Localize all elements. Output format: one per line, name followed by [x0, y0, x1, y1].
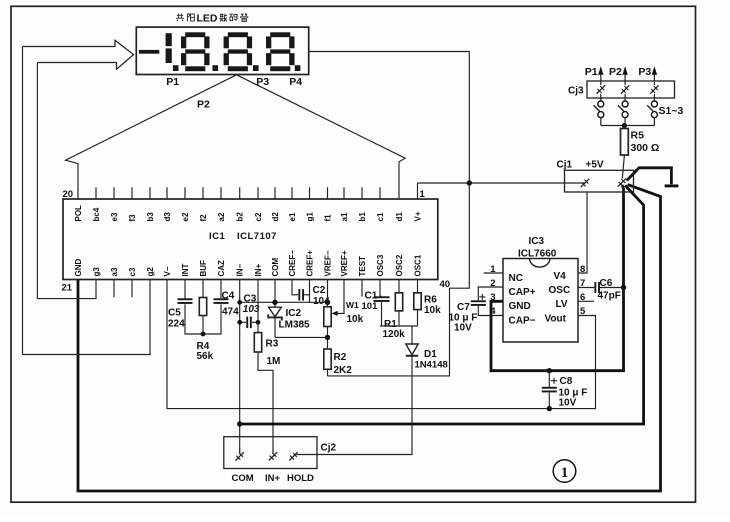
capacitor C7 10uF between CAP+ and CAP- [449, 287, 504, 333]
connector Cj1 +5V box [557, 159, 634, 192]
wire: g3 pin to arrow inner line [37, 63, 96, 299]
wire: V- pin rail to IC3 Vout (pin5) [167, 280, 596, 409]
svg-text:IN+: IN+ [265, 473, 281, 484]
svg-text:OSC: OSC [549, 285, 571, 296]
label: 共阳LED数码管 (common-anode LED display title) [176, 12, 248, 24]
svg-text:CREF+: CREF+ [306, 250, 315, 277]
potentiometer W1 10k [324, 280, 364, 327]
signal-bus arrow into display [23, 40, 134, 69]
wire: COM pin to IC2 [274, 280, 276, 308]
svg-text:120k: 120k [383, 329, 406, 340]
svg-text:LV: LV [556, 299, 568, 310]
wire: +5V net from display to rails [309, 52, 585, 376]
svg-text:ICL7107: ICL7107 [237, 231, 277, 242]
svg-text:e2: e2 [181, 212, 190, 221]
IC1 top pin labels [74, 205, 423, 222]
svg-text:56k: 56k [197, 351, 214, 362]
svg-text:a2: a2 [217, 212, 226, 221]
svg-text:C4: C4 [222, 290, 235, 301]
svg-text:ICL7660: ICL7660 [518, 248, 557, 259]
svg-text:GND: GND [74, 259, 83, 277]
IC U1: IC1 ICL7107 body [63, 199, 438, 280]
svg-text:40: 40 [440, 279, 451, 290]
svg-text:10k: 10k [347, 314, 364, 325]
svg-text:S1~3: S1~3 [659, 105, 684, 117]
capacitor C8 10uF output [542, 371, 588, 409]
resistor R3 [254, 333, 280, 453]
label P2 [197, 99, 210, 111]
svg-text:g1: g1 [306, 212, 315, 222]
IC3 pin numbers [490, 264, 586, 317]
wire+arrow to P2 [622, 66, 627, 85]
resistor R6 [414, 280, 441, 327]
voltage reference IC2 LM385 (zener symbol) [268, 307, 310, 337]
svg-text:1N4148: 1N4148 [415, 359, 448, 370]
svg-text:CAP+: CAP+ [509, 287, 536, 298]
svg-text:COM: COM [232, 473, 254, 484]
IC3 pin names [509, 271, 571, 327]
svg-text:P3: P3 [256, 76, 269, 88]
svg-text:LM385: LM385 [279, 320, 311, 331]
svg-text:C5: C5 [168, 307, 181, 318]
svg-text:CAP−: CAP− [509, 315, 536, 326]
svg-text:d1: d1 [395, 212, 404, 222]
node: C3 left [237, 320, 242, 325]
svg-text:INT: INT [181, 264, 190, 277]
svg-text:d2: d2 [271, 212, 280, 222]
svg-text:a1: a1 [340, 212, 349, 221]
svg-text:b3: b3 [146, 212, 155, 222]
svg-text:e1: e1 [288, 212, 297, 221]
wire: oscillator bottom common [380, 325, 418, 327]
svg-text:R6: R6 [424, 295, 437, 306]
svg-text:D1: D1 [424, 349, 437, 360]
svg-text:R5: R5 [631, 129, 645, 141]
pin number 40 [440, 279, 451, 290]
svg-text:C7: C7 [457, 302, 470, 313]
svg-text:21: 21 [62, 283, 73, 294]
wire: CAZ pin to C4 [220, 280, 222, 299]
wire: g2 pin to arrow outer line [23, 47, 151, 355]
svg-text:10k: 10k [424, 305, 441, 316]
svg-text:P1: P1 [166, 76, 179, 88]
svg-text:101: 101 [362, 301, 379, 312]
svg-text:b1: b1 [358, 212, 367, 222]
diode D1 1N4148 [296, 326, 447, 455]
svg-text:P3: P3 [638, 66, 651, 78]
svg-text:b2: b2 [236, 212, 245, 222]
node: IN- / rail junction [237, 300, 242, 305]
node: switch bus to R5 [622, 123, 627, 128]
svg-text:R3: R3 [266, 339, 279, 350]
pin number 21 [62, 283, 73, 294]
connector pin +5V in (Cj1) [581, 179, 589, 187]
wire: display to IC1 pin d1 fan (right roof) [237, 75, 406, 199]
svg-text:IN−: IN− [236, 264, 245, 277]
svg-text:474: 474 [222, 307, 239, 318]
svg-text:e3: e3 [110, 212, 119, 221]
connector Cj3 box [568, 81, 675, 98]
svg-text:TEST: TEST [358, 256, 367, 277]
connector pin P1 (Cj3) [597, 85, 605, 93]
svg-text:IC1: IC1 [209, 231, 226, 242]
node: C8 top on ground rail [547, 368, 552, 373]
svg-text:V4: V4 [554, 271, 567, 282]
svg-text:IC3: IC3 [529, 236, 545, 247]
connector pin P2 (Cj3) [621, 85, 629, 93]
capacitor C3 [240, 293, 260, 328]
wire: thick COM rail from IN- line to Cj1 [240, 186, 644, 425]
svg-text:1: 1 [561, 465, 569, 481]
resistor R4 [197, 280, 214, 363]
svg-text:300 Ω: 300 Ω [631, 142, 660, 154]
wire: INT pin to C5 [184, 280, 186, 299]
wire+arrow to P3 [652, 66, 657, 85]
wire: thick ground net Cj1 to IC3 pin3 GND [491, 185, 624, 371]
svg-text:1M: 1M [267, 356, 281, 367]
svg-text:R2: R2 [334, 352, 347, 363]
capacitor C1 [362, 280, 390, 327]
svg-text:IN+: IN+ [254, 264, 263, 277]
svg-text:VREF+: VREF+ [340, 250, 349, 276]
node: C3 right [256, 320, 261, 325]
svg-text:10V: 10V [454, 322, 472, 333]
svg-text:OSC2: OSC2 [395, 254, 404, 276]
IC1 top pin stubs [96, 183, 418, 199]
svg-text:P2: P2 [197, 99, 210, 111]
svg-text:Cj2: Cj2 [321, 442, 337, 453]
node: R4 bottom junction [201, 332, 206, 337]
chassis ground symbol [627, 168, 679, 186]
svg-text:V+: V+ [414, 211, 423, 221]
node: W1 top junction [325, 300, 330, 305]
svg-text:OSC3: OSC3 [376, 254, 385, 276]
svg-text:C2: C2 [313, 285, 326, 296]
wire: a3 pin stub [113, 280, 115, 298]
connector pin P3 (Cj3) [650, 85, 658, 93]
wire: IN- pin line down to Cj2 COM [239, 280, 241, 454]
label IN+ [265, 473, 281, 484]
svg-text:BUF: BUF [199, 260, 208, 277]
wire: reference rail IN- to W1 top [240, 301, 328, 303]
svg-text:10V: 10V [559, 397, 577, 408]
svg-text:f2: f2 [199, 214, 208, 222]
svg-text:2K2: 2K2 [334, 365, 353, 376]
LED display module (-1.8.8.8.) [136, 27, 308, 74]
svg-text:P1: P1 [585, 66, 598, 78]
svg-text:V−: V− [163, 266, 172, 276]
label P3 [638, 66, 651, 78]
svg-text:IC2: IC2 [286, 308, 302, 319]
svg-text:NC: NC [509, 273, 523, 284]
wire: IN+ pin through C3 node to R3 [257, 280, 259, 333]
wire: display to IC1 pin20 fan (left roof) [66, 75, 237, 199]
svg-text:CREF−: CREF− [288, 250, 297, 277]
svg-text:g2: g2 [146, 267, 155, 277]
capacitor C6 47pF on OSC pin [578, 278, 624, 302]
connector pin GND (Cj1) [618, 178, 626, 186]
svg-text:Cj3: Cj3 [568, 86, 584, 97]
wire: GND pin thick ground loop (bottom and right side) [78, 185, 661, 491]
capacitor C2 between CREF- and CREF+ [292, 280, 330, 308]
wire: VREF- pin to W1 [327, 280, 329, 307]
svg-text:5: 5 [580, 306, 586, 317]
label HOLD [287, 473, 314, 484]
svg-text:c2: c2 [254, 212, 263, 221]
svg-text:20: 20 [63, 189, 74, 200]
label P1 [166, 76, 179, 88]
node: W1/R2/IC2 junction [325, 335, 330, 340]
pin number 20 [63, 189, 74, 200]
svg-text:Vout: Vout [545, 313, 567, 324]
resistor R1 [383, 280, 406, 341]
resistor R5 300ohm [621, 126, 660, 179]
svg-text:C6: C6 [600, 278, 613, 289]
svg-text:47pF: 47pF [598, 291, 621, 302]
svg-text:bc4: bc4 [92, 207, 101, 221]
wire: W1 bottom to R2 [327, 327, 329, 350]
svg-text:P2: P2 [609, 66, 622, 78]
label P3 [256, 76, 269, 88]
node: +5V junction [467, 180, 472, 185]
svg-text:d3: d3 [163, 212, 172, 222]
wire: IC2 bottom to W1 bottom node [275, 336, 328, 338]
svg-text:C3: C3 [244, 293, 257, 304]
svg-text:f1: f1 [324, 214, 333, 222]
svg-text:c1: c1 [376, 212, 385, 221]
label P4 [289, 76, 302, 88]
svg-text:c3: c3 [128, 267, 137, 276]
svg-text:f3: f3 [128, 214, 137, 222]
wire: IC3 pin6 LV stub [578, 300, 594, 302]
svg-text:224: 224 [168, 318, 185, 329]
wire: C5/R4/C4 common bottom [185, 304, 221, 334]
svg-text:CAZ: CAZ [217, 260, 226, 277]
label COM [232, 473, 254, 484]
svg-text:OSC1: OSC1 [414, 254, 423, 276]
svg-text:LED: LED [197, 12, 218, 24]
node: IN- / COM rail junction [237, 421, 242, 426]
label P1 [585, 66, 598, 78]
pin number 1 [420, 189, 426, 200]
svg-text:+5V: +5V [586, 159, 604, 170]
svg-text:Cj1: Cj1 [557, 159, 573, 170]
wire: c3 pin stub [131, 280, 133, 298]
svg-text:POL: POL [74, 205, 83, 222]
capacitor C4 [214, 290, 240, 317]
svg-text:C8: C8 [560, 376, 573, 387]
node: COM / rail junction [272, 300, 277, 305]
connector pin HOLD (Cj2) [289, 452, 297, 460]
IC U3: IC3 ICL7660 body [503, 236, 578, 342]
node: C6 / ground line junction [621, 285, 626, 290]
figure number (1) circled [553, 460, 576, 483]
svg-text:1: 1 [420, 189, 426, 200]
svg-text:P4: P4 [289, 76, 302, 88]
svg-text:COM: COM [271, 258, 280, 277]
switches S1~3 [594, 94, 684, 126]
svg-text:HOLD: HOLD [287, 473, 314, 484]
connector Cj2 box [224, 437, 337, 469]
connector pin COM (Cj2) [236, 448, 244, 461]
svg-text:g3: g3 [92, 267, 101, 277]
node: C8 bottom on V- rail [547, 406, 552, 411]
capacitor C5 [168, 298, 193, 329]
svg-text:VREF−: VREF− [324, 250, 333, 276]
wire+arrow to P1 [598, 66, 603, 85]
svg-text:C1: C1 [365, 290, 378, 301]
wire: TEST pin stub [361, 280, 363, 297]
connector pin IN+ (Cj2) [269, 448, 277, 461]
label P2 [609, 66, 622, 78]
IC1 bottom pin labels [74, 250, 423, 277]
svg-text:a3: a3 [110, 267, 119, 276]
svg-text:103: 103 [243, 304, 260, 315]
wire: IC3 pin1 NC stub [484, 272, 503, 274]
resistor R2 [324, 349, 352, 376]
wire: switch common bus [601, 125, 655, 127]
svg-text:W1: W1 [346, 300, 359, 310]
svg-text:GND: GND [509, 301, 531, 312]
wire: IC3 pin8 to Cj1 +5V [578, 192, 587, 273]
